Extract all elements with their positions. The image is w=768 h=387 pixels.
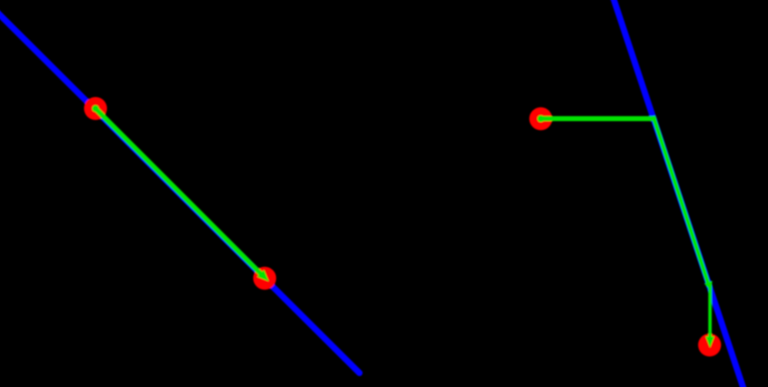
wire: green arrow A1 from P1 to P2	[92, 105, 269, 281]
wire: green diagonal arrow A2 along L2	[653, 116, 712, 291]
wire: right blue line L2	[611, 0, 744, 387]
node P1: red point upper-left	[84, 97, 107, 120]
wire: left blue line L1	[0, 9, 360, 373]
node P4: red point bottom-right	[698, 334, 721, 357]
wire: green vertical arrow A3 down to P4	[706, 286, 715, 348]
node P2: red point lower-left	[253, 267, 276, 290]
wire: green horizontal segment from P3 to line L2	[537, 115, 654, 122]
node P3: red point right panel	[529, 107, 552, 130]
